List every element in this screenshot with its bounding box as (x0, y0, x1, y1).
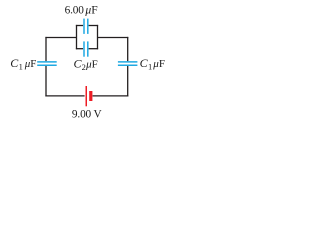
svg-text:9.00 V: 9.00 V (72, 108, 103, 120)
wire: bottom horizontal right of battery (93, 95, 129, 97)
wire: middle horizontal left segment (node a to parallel block) (45, 37, 76, 39)
capacitor plates (top, cyan) (84, 19, 88, 34)
wire: right vertical upper segment (127, 37, 129, 61)
wire: left vertical upper segment (45, 37, 47, 61)
capacitor plates (bottom, cyan) (84, 41, 88, 56)
svg-text:1: 1 (148, 62, 152, 72)
svg-text:μF: μF (85, 58, 98, 70)
wire: left vertical lower segment (45, 66, 47, 97)
label: 9.00 V (battery voltage) (72, 108, 103, 120)
wire: right vertical lower segment (127, 66, 129, 97)
label: C2 uF (parallel combination) (74, 56, 98, 72)
battery 9.00 V: long plate (positive) (86, 86, 88, 106)
label: C1 uF (right capacitor) (140, 56, 165, 72)
wire: bottom horizontal left of battery (45, 95, 84, 97)
svg-text:μF: μF (152, 58, 165, 70)
capacitor C1 (right) plates (118, 62, 137, 65)
capacitor (top of parallel pair, 6.00 uF): top edge wires (76, 25, 98, 27)
label: 6.00 uF (parallel capacitors value) (65, 3, 99, 16)
svg-text:μF: μF (24, 58, 37, 70)
svg-text:6.00: 6.00 (65, 4, 85, 16)
svg-text:1: 1 (19, 62, 23, 72)
wire: middle horizontal right segment (parallel block to node b) (98, 37, 128, 39)
battery 9.00 V: short thick plate (negative) (89, 91, 92, 101)
svg-text:μF: μF (84, 3, 98, 16)
wire: parallel block left edge (76, 25, 78, 49)
capacitor (bottom of parallel pair, 6.00 uF): bottom edge wires (76, 48, 98, 50)
capacitor C1 (left) plates (37, 62, 57, 65)
label: C1 uF (left capacitor) (10, 56, 36, 72)
wire: parallel block right edge (97, 25, 99, 49)
